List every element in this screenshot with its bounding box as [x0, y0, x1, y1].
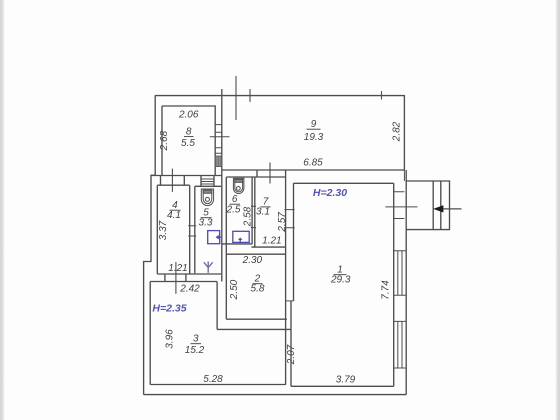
- svg-text:2.06: 2.06: [178, 110, 199, 121]
- svg-text:4.1: 4.1: [167, 210, 181, 221]
- svg-text:2.58: 2.58: [243, 206, 254, 227]
- svg-text:5.5: 5.5: [181, 138, 195, 149]
- svg-text:2.30: 2.30: [242, 255, 263, 266]
- svg-text:1.21: 1.21: [168, 263, 187, 274]
- svg-text:5.8: 5.8: [251, 284, 265, 295]
- svg-text:9: 9: [311, 119, 317, 130]
- svg-text:2.42: 2.42: [179, 284, 200, 295]
- svg-text:2.68: 2.68: [159, 130, 170, 151]
- svg-text:29.3: 29.3: [330, 275, 351, 286]
- svg-text:H=2.30: H=2.30: [313, 187, 347, 199]
- svg-text:15.2: 15.2: [185, 345, 205, 356]
- svg-text:3.37: 3.37: [158, 220, 169, 240]
- svg-text:6: 6: [232, 194, 238, 205]
- svg-text:3: 3: [193, 334, 199, 345]
- svg-text:2.5: 2.5: [226, 205, 241, 216]
- svg-text:5.28: 5.28: [203, 374, 223, 385]
- svg-text:2.82: 2.82: [392, 121, 403, 142]
- svg-text:1.21: 1.21: [262, 236, 281, 247]
- svg-text:H=2.35: H=2.35: [152, 303, 186, 315]
- svg-text:3.96: 3.96: [164, 329, 175, 349]
- svg-text:3.3: 3.3: [199, 218, 213, 229]
- svg-text:3.79: 3.79: [336, 375, 356, 386]
- svg-text:2.07: 2.07: [286, 344, 297, 365]
- svg-text:2.57: 2.57: [277, 212, 288, 233]
- svg-text:8: 8: [186, 127, 192, 138]
- svg-text:2.50: 2.50: [229, 279, 240, 300]
- svg-text:3.1: 3.1: [256, 207, 270, 218]
- svg-text:6.85: 6.85: [303, 158, 323, 169]
- svg-text:19.3: 19.3: [304, 132, 324, 143]
- svg-text:7.74: 7.74: [380, 280, 391, 300]
